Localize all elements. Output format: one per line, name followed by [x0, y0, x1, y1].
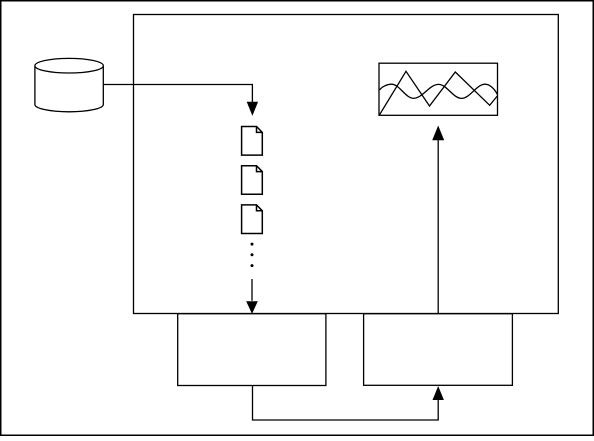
container rectangle	[134, 15, 559, 314]
chart box	[379, 63, 498, 115]
arrowhead up into right box bottom	[433, 386, 444, 400]
arrowhead down onto container bottom	[246, 301, 258, 314]
document icon 2	[242, 166, 263, 195]
wire from cylinder to arrow corner	[103, 85, 252, 103]
wire: right box top up to chart	[437, 140, 439, 314]
chart zigzag polyline	[380, 71, 498, 115]
wire: left box bottom to right box bottom	[253, 386, 439, 421]
chart sine curve	[380, 84, 498, 98]
wire: dots to left box	[251, 279, 253, 301]
arrowhead down into documents	[247, 102, 258, 116]
ellipsis dots	[251, 243, 254, 268]
arrowhead up toward chart	[432, 126, 444, 141]
database cylinder	[35, 58, 103, 111]
document icon 3	[242, 205, 263, 234]
document icon 1	[242, 127, 263, 156]
right process box	[364, 314, 513, 386]
left process box	[178, 314, 326, 386]
